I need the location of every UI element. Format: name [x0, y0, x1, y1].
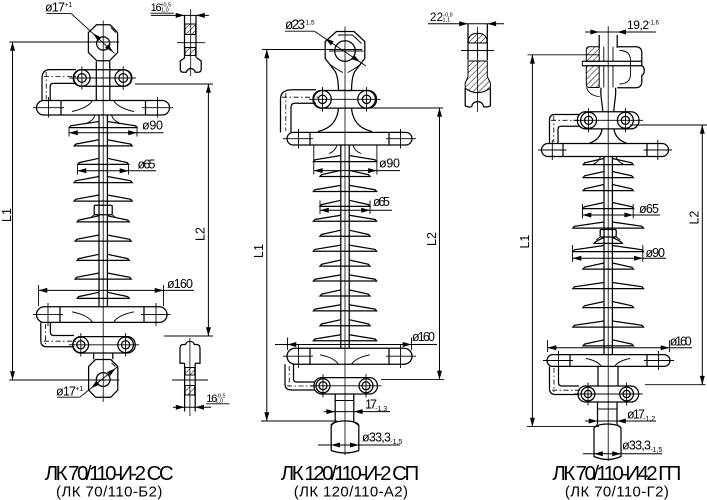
svg-text:ЛК 70/110-И-2 СС: ЛК 70/110-И-2 СС — [45, 462, 174, 485]
svg-text:(ЛК 120/110-А2): (ЛК 120/110-А2) — [294, 484, 408, 500]
svg-text:ø90: ø90 — [142, 119, 163, 133]
svg-text:ø160: ø160 — [167, 277, 193, 291]
svg-text:ЛК 120/110-И-2 СП: ЛК 120/110-И-2 СП — [281, 462, 419, 485]
svg-text:ø65: ø65 — [639, 202, 659, 216]
svg-text:22-0,9-1,1: 22-0,9-1,1 — [430, 12, 453, 24]
svg-text:ЛК 70/110-И42 ГП: ЛК 70/110-И42 ГП — [552, 462, 681, 485]
svg-text:L1: L1 — [518, 235, 532, 249]
svg-text:L1: L1 — [252, 244, 266, 258]
svg-text:L2: L2 — [425, 232, 439, 246]
svg-text:ø65: ø65 — [373, 195, 390, 209]
svg-text:(ЛК 70/110-Г2): (ЛК 70/110-Г2) — [565, 484, 669, 500]
svg-text:ø160: ø160 — [412, 330, 435, 344]
svg-text:ø90: ø90 — [379, 157, 400, 171]
svg-text:L2: L2 — [194, 227, 208, 241]
svg-text:ø90: ø90 — [646, 246, 666, 260]
svg-text:L1: L1 — [0, 208, 14, 222]
svg-text:ø65: ø65 — [138, 157, 156, 171]
svg-text:16+0,5-1,0: 16+0,5-1,0 — [151, 2, 172, 14]
svg-text:16-0,5-1,0: 16-0,5-1,0 — [206, 393, 225, 405]
svg-text:L2: L2 — [688, 211, 702, 225]
svg-text:ø160: ø160 — [670, 335, 692, 349]
svg-text:(ЛК 70/110-Б2): (ЛК 70/110-Б2) — [56, 484, 162, 500]
